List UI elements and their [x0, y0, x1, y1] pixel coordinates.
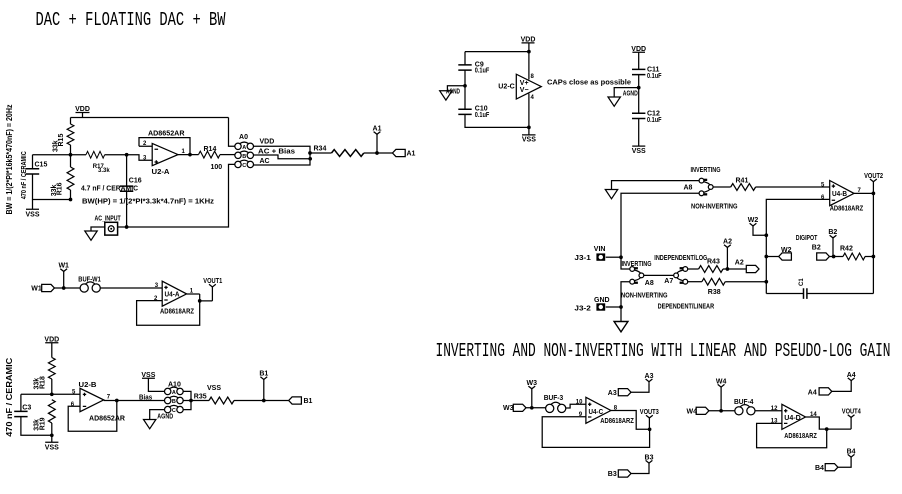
- wire input node: [33, 154, 87, 156]
- jumper A7 (gain select right): [674, 267, 688, 285]
- svg-text:U4-A: U4-A: [165, 292, 180, 299]
- svg-text:W1: W1: [31, 286, 42, 293]
- svg-text:A8: A8: [684, 184, 693, 191]
- svg-text:B: B: [172, 399, 176, 405]
- svg-text:A1: A1: [407, 151, 416, 158]
- svg-text:AD8618ARZ: AD8618ARZ: [600, 418, 634, 425]
- op-amp U4-D: [782, 404, 806, 429]
- op-amp U4-C: [586, 397, 611, 423]
- wire R41 to U4-B pin5: [756, 186, 830, 188]
- node output join: [308, 151, 312, 155]
- wire R17 to op-amp: [105, 155, 153, 161]
- wire R14 to jumper row B: [220, 154, 235, 156]
- svg-text:VSS: VSS: [25, 212, 39, 219]
- svg-text:A4: A4: [808, 390, 817, 397]
- wire U4-C output: [611, 411, 650, 430]
- svg-text:VDD: VDD: [260, 139, 275, 146]
- op-amp U4-B: [830, 181, 854, 206]
- wire U4-A pin2 + feedback loop: [137, 294, 200, 325]
- wire gnd branch to lower jumper: [621, 282, 630, 322]
- wire VIN node down to jumpers: [621, 257, 630, 269]
- op-amp U2-A: [152, 143, 178, 165]
- wire between jumper centers: [644, 274, 674, 276]
- svg-text:0.1uF: 0.1uF: [475, 112, 490, 119]
- svg-text:W2: W2: [748, 217, 759, 224]
- op-amp U4-A: [162, 281, 186, 306]
- wire U4-D output: [806, 417, 852, 429]
- power VSS (C12): [632, 145, 645, 147]
- svg-text:AGND: AGND: [446, 89, 460, 96]
- resistor R42: [843, 253, 865, 260]
- wire U4-D pin13 + feedback loop: [757, 423, 827, 447]
- svg-text:470 nF / CERAMIC: 470 nF / CERAMIC: [5, 358, 14, 437]
- svg-text:0.1uF: 0.1uF: [475, 68, 490, 75]
- svg-text:33k: 33k: [51, 185, 58, 197]
- wire junction to pin5: [21, 393, 80, 395]
- wire to R34: [310, 152, 332, 154]
- wire A7 top to R43: [688, 268, 699, 270]
- node AGND tap (right): [637, 86, 641, 90]
- svg-text:NON-INVERTING: NON-INVERTING: [691, 204, 738, 211]
- svg-text:C1: C1: [799, 278, 805, 286]
- wire R35 to tag B1: [234, 400, 289, 402]
- wire to U4-A pin3: [100, 287, 162, 289]
- svg-text:BW = 1/(2*PI*16k5*470nF) = 20H: BW = 1/(2*PI*16k5*470nF) = 20Hz: [5, 105, 14, 215]
- capacitor C3: [20, 394, 22, 411]
- svg-text:W3: W3: [527, 380, 538, 387]
- svg-text:12: 12: [771, 406, 778, 412]
- svg-text:DEPENDENT/LINEAR: DEPENDENT/LINEAR: [658, 303, 715, 310]
- ground AGND (right): [614, 88, 639, 97]
- wire U2-B pin6 + feedback: [68, 401, 117, 432]
- node R19 bottom: [50, 433, 54, 437]
- svg-text:INVERTING AND NON-INVERTING WI: INVERTING AND NON-INVERTING WITH LINEAR …: [436, 340, 891, 362]
- svg-text:4.7 nF / CERAMIC: 4.7 nF / CERAMIC: [81, 186, 138, 193]
- svg-text:B1: B1: [304, 398, 313, 405]
- svg-text:100: 100: [211, 164, 223, 171]
- wire to U4-C pin10: [566, 404, 586, 408]
- svg-text:A8: A8: [645, 280, 654, 287]
- svg-text:AGND: AGND: [157, 414, 173, 421]
- power VSS (U2-C): [522, 127, 536, 134]
- svg-text:470 nF / CERAMIC: 470 nF / CERAMIC: [21, 151, 28, 199]
- svg-text:W4: W4: [687, 408, 698, 415]
- svg-text:A2: A2: [735, 260, 744, 267]
- svg-text:VSS: VSS: [522, 137, 536, 144]
- svg-text:INDEPENDENT/LOG: INDEPENDENT/LOG: [654, 255, 707, 262]
- resistor R34: [332, 150, 364, 157]
- svg-text:B: B: [242, 154, 246, 160]
- svg-text:AD8618ARZ: AD8618ARZ: [784, 433, 817, 440]
- resistor R35: [209, 397, 234, 404]
- svg-text:A: A: [172, 390, 176, 396]
- node C16 bottom junction: [125, 225, 129, 229]
- wire VDD rail to row A: [229, 118, 235, 147]
- svg-text:C15: C15: [35, 162, 48, 169]
- svg-text:J3-1: J3-1: [574, 255, 591, 262]
- wire A10 right tie: [183, 391, 191, 409]
- capacitor C15: [32, 155, 34, 169]
- wire U4-A output: [187, 294, 213, 301]
- svg-text:INVERTING: INVERTING: [691, 167, 721, 174]
- svg-text:R42: R42: [840, 245, 853, 252]
- svg-text:33k: 33k: [34, 378, 41, 390]
- wire VDD rail: [71, 118, 229, 125]
- svg-text:AD8652AR: AD8652AR: [89, 415, 125, 422]
- svg-text:AD8618ARZ: AD8618ARZ: [830, 206, 864, 213]
- svg-text:C: C: [242, 163, 246, 169]
- svg-text:VSS: VSS: [632, 148, 646, 155]
- svg-text:U4-C: U4-C: [589, 409, 604, 416]
- svg-text:W2: W2: [781, 247, 792, 254]
- svg-text:W3: W3: [503, 405, 514, 412]
- svg-text:C16: C16: [129, 178, 142, 185]
- svg-text:AGND: AGND: [623, 90, 638, 97]
- svg-text:VSS: VSS: [207, 385, 221, 392]
- resistor R43: [699, 266, 723, 273]
- svg-text:U4-B: U4-B: [832, 191, 847, 198]
- svg-text:R43: R43: [707, 259, 720, 266]
- svg-text:R41: R41: [736, 177, 749, 184]
- wire to R35: [191, 400, 209, 402]
- svg-text:DAC + FLOATING DAC + BW: DAC + FLOATING DAC + BW: [36, 9, 226, 31]
- capacitor C9: [458, 65, 471, 70]
- node AGND tap: [463, 84, 467, 88]
- ground (J3-2): [614, 322, 628, 332]
- node C16 tap: [125, 153, 129, 157]
- tag A2: [746, 265, 759, 272]
- svg-text:AC_INPUT: AC_INPUT: [95, 215, 122, 222]
- tag B2 (digipot bottom): [817, 253, 830, 260]
- op-amp U2-C (power symbol): [516, 74, 541, 99]
- svg-text:C3: C3: [22, 405, 31, 412]
- svg-text:AC: AC: [260, 158, 270, 165]
- svg-text:BW(HP) = 1/(2*PI*3.3k*4.7nF) =: BW(HP) = 1/(2*PI*3.3k*4.7nF) = 1KHz: [82, 199, 215, 206]
- node R16 bottom: [69, 198, 73, 202]
- wire row C to AC input line: [118, 164, 235, 227]
- svg-text:DIGIPOT: DIGIPOT: [796, 235, 818, 242]
- wire U2-A feedback loop: [139, 138, 190, 155]
- wire U4-C pin9 + feedback loop: [542, 417, 649, 448]
- svg-text:AD8618ARZ: AD8618ARZ: [160, 309, 195, 316]
- resistor R17: [86, 151, 105, 158]
- power VSS (below C15): [26, 200, 39, 210]
- svg-text:U4-D: U4-D: [784, 415, 801, 422]
- svg-text:B3: B3: [608, 471, 617, 478]
- resistor R18: [48, 358, 55, 380]
- capacitor C16: [126, 155, 128, 186]
- svg-text:U2-A: U2-A: [152, 169, 170, 176]
- svg-text:B4: B4: [815, 465, 824, 472]
- svg-text:U2-B: U2-B: [79, 382, 97, 389]
- svg-text:3.3k: 3.3k: [98, 168, 110, 174]
- svg-text:AD8652AR: AD8652AR: [148, 131, 185, 138]
- svg-text:Bias: Bias: [139, 394, 152, 401]
- capacitor C10: [464, 86, 466, 109]
- tag B1: [289, 397, 302, 404]
- svg-text:A7: A7: [664, 278, 673, 285]
- wire non-inverting branch down: [621, 193, 699, 257]
- svg-text:CAPs close as possible: CAPs close as possible: [547, 80, 631, 87]
- wire top rail: [465, 51, 529, 53]
- ground (AC_INPUT): [91, 227, 105, 231]
- power VSS (R19): [45, 435, 58, 442]
- resistor R19: [48, 400, 55, 423]
- wire A7 bottom to R38: [688, 281, 702, 283]
- svg-text:0.1uF: 0.1uF: [647, 73, 662, 80]
- svg-text:W1: W1: [58, 263, 69, 270]
- svg-text:10: 10: [576, 400, 583, 406]
- svg-text:U2-C: U2-C: [498, 84, 515, 91]
- svg-text:A: A: [242, 145, 246, 151]
- svg-text:BUF-3: BUF-3: [544, 395, 564, 402]
- svg-text:0.1uF: 0.1uF: [647, 117, 662, 124]
- svg-text:GND: GND: [594, 297, 610, 304]
- svg-text:VIN: VIN: [594, 246, 606, 253]
- capacitor C1: [766, 293, 873, 295]
- svg-text:R35: R35: [194, 393, 207, 400]
- wire left branch: [464, 52, 466, 65]
- tag W2 (digipot wiper): [766, 256, 778, 258]
- resistor R15: [67, 124, 74, 145]
- svg-text:VSS: VSS: [45, 444, 59, 451]
- svg-text:B2: B2: [812, 245, 821, 252]
- wire R43 to tag A2: [723, 268, 746, 270]
- svg-text:33k: 33k: [53, 140, 60, 152]
- svg-text:33k: 33k: [34, 419, 41, 431]
- svg-text:VOUT2: VOUT2: [864, 173, 883, 180]
- wire U2-B output (Bias): [104, 400, 165, 402]
- wire R34 to tag A1: [364, 152, 393, 154]
- ground (input select): [605, 190, 617, 199]
- wire U4-B output: [854, 192, 873, 194]
- svg-text:W4: W4: [716, 378, 727, 385]
- svg-text:VOUT1: VOUT1: [203, 278, 222, 285]
- ground AGND (left): [447, 86, 465, 91]
- node R18/R19/C3 junction: [50, 392, 54, 396]
- tag A1: [393, 149, 406, 156]
- wire R38 to feedback node: [725, 281, 766, 283]
- svg-text:R34: R34: [314, 146, 327, 153]
- wire U2-A output: [178, 154, 199, 156]
- jumper A8 (input select): [699, 178, 713, 196]
- svg-text:R38: R38: [708, 289, 721, 296]
- resistor R38: [702, 278, 725, 285]
- svg-text:V−: V−: [520, 87, 529, 94]
- resistor R16: [70, 155, 72, 167]
- node bottom rail: [527, 126, 531, 130]
- svg-text:VOUT3: VOUT3: [640, 409, 659, 416]
- svg-text:J3-2: J3-2: [574, 306, 591, 313]
- capacitor C11: [632, 69, 645, 74]
- wire U4-B pin6 feedback down: [766, 199, 829, 293]
- resistor R14: [199, 151, 221, 158]
- svg-text:R14: R14: [204, 146, 217, 153]
- svg-text:A0: A0: [239, 134, 248, 141]
- wire to U4-D pin12: [755, 410, 782, 412]
- svg-text:NON-INVERTING: NON-INVERTING: [621, 292, 668, 299]
- svg-text:VOUT4: VOUT4: [842, 409, 861, 416]
- resistor R41: [731, 184, 756, 191]
- wire jumper to R41: [713, 186, 731, 188]
- svg-text:A3: A3: [608, 390, 617, 397]
- jumper A8 (gain select left): [630, 267, 644, 285]
- node junction R15/R16/R17/C15: [69, 153, 73, 157]
- capacitor C12: [632, 113, 645, 118]
- wire output down to R42/C1: [872, 193, 874, 293]
- ground AGND (A10 row C): [150, 410, 165, 420]
- wire row A right: [254, 146, 311, 165]
